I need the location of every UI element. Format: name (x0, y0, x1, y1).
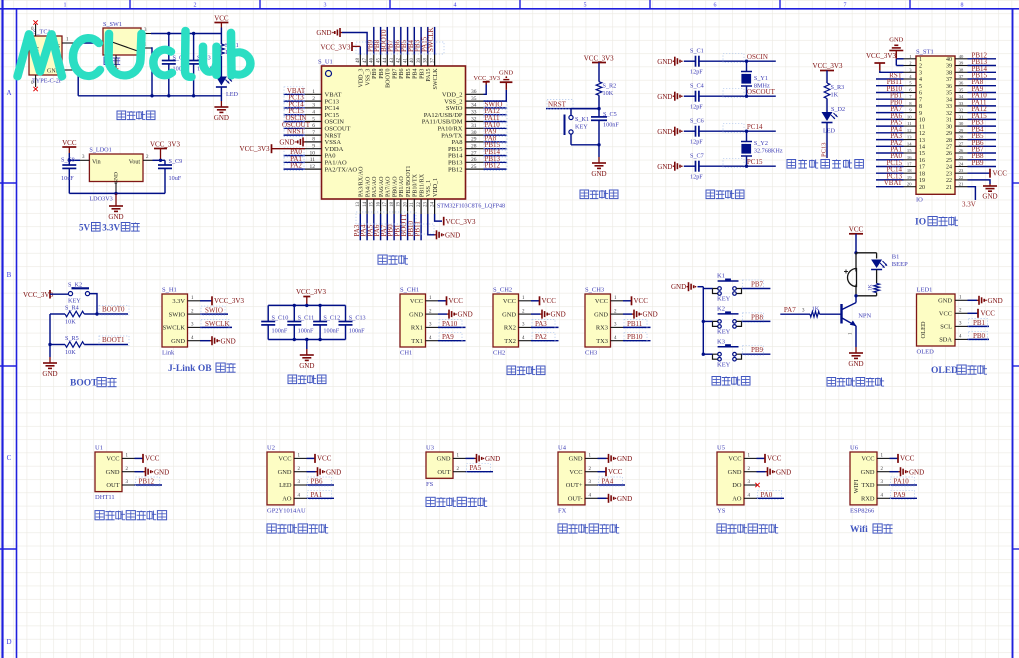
svg-text:Wifi: Wifi (850, 525, 868, 535)
capacitor S_C1 12pF (684, 60, 696, 62)
ground GND of power circuit (220, 101, 222, 107)
svg-text:16: 16 (376, 201, 381, 207)
svg-text:43: 43 (390, 57, 395, 63)
svg-text:CH1: CH1 (400, 350, 412, 357)
svg-text:TX3: TX3 (596, 338, 608, 345)
svg-text:31: 31 (946, 118, 952, 124)
svg-text:VCC: VCC (939, 311, 952, 318)
svg-text:BEEP: BEEP (892, 261, 908, 268)
svg-text:28: 28 (471, 144, 477, 150)
wire VBUS to switch (73, 42, 95, 44)
sheet border left tick (0, 182, 17, 184)
chip pin 45 PB8 (380, 55, 382, 67)
bottom rail of LDO circuit (69, 192, 165, 194)
section title key circuit (712, 377, 721, 386)
svg-text:19: 19 (397, 202, 402, 208)
svg-text:PA2: PA2 (535, 333, 547, 341)
svg-text:TXD: TXD (861, 482, 875, 489)
svg-text:4: 4 (312, 110, 315, 116)
U2 wire to GND (307, 471, 316, 473)
svg-text:30: 30 (959, 121, 964, 126)
svg-text:LDO3V3: LDO3V3 (89, 196, 112, 203)
wire and net label OSCOUT (284, 127, 306, 129)
wire R1 to LED (220, 56, 222, 77)
wire and net label PA12 (484, 114, 507, 116)
ground above header (895, 51, 897, 59)
svg-text:22: 22 (959, 175, 964, 180)
svg-text:38: 38 (424, 58, 429, 64)
U4 pin 2 VCC (585, 471, 598, 473)
svg-text:14: 14 (907, 141, 912, 146)
header pin 3 (904, 71, 917, 73)
module U3 body (426, 452, 453, 478)
svg-text:8MHz: 8MHz (754, 83, 770, 90)
svg-text:GND: GND (551, 311, 566, 319)
U6 pin 1 VCC (877, 457, 890, 459)
wire and rotated net label SWCLK (434, 27, 436, 55)
svg-text:B: B (7, 271, 12, 279)
header pin 38 (955, 71, 968, 73)
svg-text:PA6/AO: PA6/AO (379, 176, 385, 197)
svg-text:22: 22 (417, 201, 422, 207)
section title filter circuit (288, 375, 297, 384)
crystal S_Y2 32.768KHz (745, 130, 748, 133)
section title for U1 (95, 511, 104, 520)
svg-text:DO: DO (732, 482, 742, 489)
svg-text:K2: K2 (717, 306, 725, 313)
svg-text:VCC: VCC (145, 455, 160, 463)
sheet border top ruler line (0, 8, 1019, 10)
section title for U3 (426, 497, 435, 506)
svg-text:37: 37 (430, 57, 435, 63)
wire and rotated net label PA3 (359, 214, 361, 240)
base resistor 1K (780, 313, 810, 315)
chip pin 33 PA12/USB/DP (466, 114, 484, 116)
header pin 25 (955, 159, 968, 161)
svg-text:GP2Y1014AU: GP2Y1014AU (267, 507, 306, 514)
svg-text:TX2: TX2 (504, 338, 516, 345)
svg-text:D: D (6, 638, 11, 646)
svg-text:PA2/TX/AO: PA2/TX/AO (325, 166, 358, 173)
U4 wire to GND (598, 497, 607, 499)
svg-text:PB7: PB7 (751, 280, 764, 288)
svg-text:GND: GND (485, 455, 500, 463)
U3 pin 1 GND (453, 457, 466, 459)
OLED pin 2 VCC (955, 312, 968, 314)
header pin 13 (904, 139, 917, 141)
svg-text:GND: GND (657, 58, 672, 66)
svg-text:VCC: VCC (595, 298, 608, 305)
capacitor S_C7 12pF (684, 165, 696, 167)
header pin 5 (904, 85, 917, 87)
svg-text:VDD_3: VDD_3 (359, 69, 365, 88)
header pin 16 (904, 159, 917, 161)
section title for U4 (558, 524, 567, 533)
svg-text:S_CH3: S_CH3 (585, 287, 604, 294)
svg-text:S_H1: S_H1 (162, 287, 177, 294)
svg-text:A: A (6, 89, 11, 97)
wire rail to ground (49, 345, 51, 358)
wire and net label PB12 (484, 168, 507, 170)
svg-text:U6: U6 (850, 445, 859, 452)
wire R3 to LED (826, 99, 828, 113)
filter top rail (268, 304, 345, 306)
wire and net label PC14 left (876, 172, 904, 174)
U5 unconnected pin (755, 483, 759, 487)
U1 wire and net label PB12 (135, 484, 163, 486)
svg-text:PA3/RX/AO: PA3/RX/AO (359, 166, 365, 197)
svg-text:Vout: Vout (129, 160, 141, 166)
wire and rotated net label PB11 (420, 214, 422, 240)
svg-text:23: 23 (424, 202, 429, 208)
svg-text:VCC: VCC (62, 139, 77, 147)
svg-text:S_C10: S_C10 (272, 315, 289, 322)
U5 wire to VCC (757, 457, 766, 459)
wire and rotated net label PB7 (393, 27, 395, 55)
svg-text:BOOT0: BOOT0 (386, 69, 392, 88)
U2 pin 3 LED (294, 484, 307, 486)
svg-text:Link: Link (162, 350, 175, 357)
svg-text:SWCLK: SWCLK (163, 325, 186, 332)
keys vertical rail (702, 287, 704, 355)
OLED pin 3 SCL (955, 325, 968, 327)
ground GND filter (306, 340, 308, 350)
U5 pin 3 DO (744, 484, 757, 486)
S_CH3 wire and net label PB10 (623, 340, 651, 342)
chip pin 46 PB9 (373, 55, 375, 67)
capacitor S_C10 100nF (267, 305, 269, 321)
svg-text:VCC: VCC (767, 455, 782, 463)
svg-text:SWIO: SWIO (169, 311, 186, 318)
svg-text:18: 18 (919, 171, 925, 177)
svg-text:STM32F103C8T6_LQFP48: STM32F103C8T6_LQFP48 (437, 204, 505, 210)
sheet border top tick (389, 0, 391, 9)
svg-text:GND: GND (657, 93, 672, 101)
header pin 6 (904, 92, 917, 94)
ground below header right (989, 184, 991, 186)
U4 wire to GND (598, 457, 607, 459)
wire and net label PA15 right (968, 118, 997, 120)
svg-text:VCC_3V3: VCC_3V3 (240, 145, 270, 153)
svg-text:VCC_3V3: VCC_3V3 (296, 288, 326, 296)
svg-text:VCC: VCC (993, 170, 1008, 178)
svg-text:SCL: SCL (940, 324, 952, 331)
svg-text:10uF: 10uF (61, 175, 74, 182)
svg-text:21: 21 (959, 182, 964, 187)
OLED pin 1 GND (955, 299, 968, 301)
svg-text:32: 32 (471, 116, 477, 122)
svg-text:PA10: PA10 (442, 320, 458, 328)
section title main chip (378, 255, 387, 264)
header pin 32 (955, 112, 968, 114)
svg-text:S_ST1: S_ST1 (916, 49, 934, 56)
svg-text:1K: 1K (868, 284, 874, 291)
svg-text:GND: GND (214, 114, 229, 122)
capacitor S_C12 100nF (319, 305, 321, 321)
header pin 35 (955, 92, 968, 94)
chip pin 36 VDD_2 (466, 93, 484, 95)
chip pin 9 VDDA (305, 148, 322, 150)
chip pin 7 NRST (305, 134, 322, 136)
U2 pin 4 AO (294, 497, 307, 499)
wire and net label PB7 (742, 288, 771, 290)
svg-text:100nF: 100nF (349, 328, 365, 335)
chip pin 25 PB12 (466, 168, 484, 170)
chip pin 44 BOOT0 (386, 55, 388, 67)
svg-text:28: 28 (959, 135, 964, 140)
svg-text:33: 33 (959, 101, 964, 106)
svg-text:S_C12: S_C12 (323, 315, 340, 322)
chip pin 40 PB4 (413, 55, 415, 67)
S_CH3 pin 3 RX3 (611, 326, 624, 328)
header pin 1 (904, 58, 917, 60)
S_CH1 pin 1 VCC (426, 300, 439, 302)
resistor S_R3 1K (824, 83, 830, 99)
header pin 27 (955, 145, 968, 147)
svg-text:23: 23 (946, 171, 952, 177)
vertical rail boot (49, 314, 51, 345)
U2 wire to VCC (307, 457, 316, 459)
svg-text:18: 18 (907, 168, 912, 173)
svg-text:12: 12 (907, 128, 912, 133)
svg-text:VCC: VCC (214, 15, 229, 23)
header pin 34 (955, 98, 968, 100)
svg-text:GND: GND (279, 139, 294, 147)
svg-text:12pF: 12pF (690, 104, 703, 111)
wire LED to net label PC13 (826, 123, 828, 141)
svg-text:S_C13: S_C13 (349, 315, 366, 322)
svg-text:GND: GND (909, 468, 924, 476)
svg-text:17: 17 (383, 202, 388, 208)
svg-text:KEY: KEY (717, 296, 731, 303)
svg-text:PB7: PB7 (392, 69, 398, 79)
S_CH2 pin 3 RX2 (519, 326, 532, 328)
wire and net label PB5 right (968, 139, 997, 141)
svg-text:PB1/AO: PB1/AO (399, 176, 405, 197)
header pin 28 (955, 139, 968, 141)
svg-text:1K: 1K (831, 92, 839, 99)
U4 wire and net label PA4 (598, 484, 626, 486)
svg-text:GND: GND (42, 370, 57, 378)
power VCC header pin23 (968, 172, 991, 174)
dashed selection cluster bottom of chip (356, 212, 416, 224)
svg-text:OUT+: OUT+ (566, 482, 583, 489)
svg-text:PB11/RX: PB11/RX (419, 173, 425, 197)
svg-text:PB2/BOOT1: PB2/BOOT1 (406, 166, 412, 197)
svg-text:GND: GND (278, 469, 292, 476)
ground GND reset circuit (598, 145, 600, 157)
emitter wire to GND (855, 326, 857, 347)
svg-text:12pF: 12pF (690, 139, 703, 146)
svg-text:VCC_3V3: VCC_3V3 (584, 55, 614, 63)
svg-text:11: 11 (919, 124, 925, 130)
module U6 body (850, 452, 877, 505)
svg-text:100nF: 100nF (323, 328, 339, 335)
chip pin 16 PA6/AO (380, 199, 382, 214)
J-Link pin 4 GND (188, 340, 201, 342)
wire and net label PA0 (284, 155, 306, 157)
svg-text:14: 14 (919, 145, 925, 151)
svg-text:NRST: NRST (548, 101, 567, 109)
svg-text:LED1: LED1 (917, 287, 933, 294)
J-Link pin2 wire SWIO (200, 313, 228, 315)
U6 wire to GND (890, 471, 899, 473)
svg-text:S_R3: S_R3 (831, 84, 845, 91)
sheet border inner frame right (1012, 9, 1014, 658)
module U5 body (717, 452, 744, 505)
U1 pin 1 VCC (122, 457, 135, 459)
svg-text:PB12: PB12 (448, 166, 462, 173)
U2 pin 1 VCC (294, 457, 307, 459)
wire and rotated net label PB1 (400, 214, 402, 240)
svg-text:KEY: KEY (575, 124, 588, 131)
svg-text:VBAT: VBAT (884, 179, 903, 187)
OLED pin3 wire net PB1 (968, 325, 990, 327)
S_CH3 pin 4 TX3 (611, 340, 624, 342)
svg-text:100nF: 100nF (272, 328, 288, 335)
wire and net label PB1 left (876, 98, 904, 100)
wire and net label PB10 left (876, 92, 904, 94)
wire and net label PA5 left (876, 125, 904, 127)
svg-text:PA7/AO: PA7/AO (386, 176, 392, 197)
svg-text:7: 7 (844, 3, 847, 9)
transistor Q1 NPN (855, 296, 857, 303)
wire and rotated net label PB5 (407, 27, 409, 55)
section title serial circuit (507, 366, 516, 375)
chip pin 18 PB0/AO (393, 199, 395, 214)
header pin 8 (904, 105, 917, 107)
header pin 2 (904, 65, 917, 67)
svg-text:VCC: VCC (106, 456, 119, 463)
wire and net label PC14 (284, 107, 306, 109)
S_CH1 pin 4 TX1 (426, 340, 439, 342)
U6 wire to VCC (890, 457, 899, 459)
capacitor S_C3 100uF (193, 34, 195, 61)
svg-text:VCC_3V3: VCC_3V3 (813, 62, 843, 70)
buzzer branch wire (855, 253, 857, 272)
svg-text:RXD: RXD (861, 496, 875, 503)
svg-text:VCC: VCC (900, 455, 915, 463)
wire branches join (856, 295, 877, 297)
pin 3 Vin of LDO (80, 159, 89, 161)
header pins 1-2 join wire (896, 58, 903, 60)
chip pin 21 PB10/TX (413, 199, 415, 214)
chip pin 2 PC13 (305, 100, 322, 102)
svg-text:GND: GND (499, 70, 513, 77)
svg-text:VCC_3V3: VCC_3V3 (446, 218, 476, 226)
svg-text:GND: GND (502, 311, 516, 318)
chip pin 6 OSCOUT (305, 127, 322, 129)
svg-text:VCC: VCC (634, 297, 649, 305)
U2 wire and net label PB6 (307, 484, 335, 486)
crystal S_Y1 8MHz (745, 60, 748, 63)
pin 1 of switch (141, 47, 151, 49)
svg-text:PB4: PB4 (413, 69, 419, 79)
wire VCC to LDO Vin (69, 159, 80, 161)
S_CH2 pin 2 GND (519, 313, 532, 315)
svg-text:16: 16 (919, 158, 925, 164)
U6 pin 4 RXD (877, 497, 890, 499)
S_CH1 pin2 wire to GND (438, 313, 447, 315)
S_CH3 pin2 wire to GND (623, 313, 632, 315)
svg-text:25: 25 (959, 155, 964, 160)
header pin 29 (955, 132, 968, 134)
sheet border top tick (649, 0, 651, 9)
svg-text:32: 32 (959, 108, 964, 113)
svg-text:S_D2: S_D2 (831, 106, 845, 113)
svg-text:S_Y1: S_Y1 (754, 75, 768, 82)
svg-text:1: 1 (919, 57, 922, 63)
sheet border left tick (0, 365, 17, 367)
header pin 39 (955, 65, 968, 67)
svg-text:GND: GND (988, 297, 1003, 305)
chip pin 42 PB6 (400, 55, 402, 67)
svg-text:8: 8 (312, 137, 315, 143)
chip pin 5 OSCIN (305, 121, 322, 123)
S_CH1 pin1 wire to VCC (438, 300, 447, 302)
chip pin 28 PB15 (466, 148, 484, 150)
svg-text:VCC: VCC (317, 455, 332, 463)
svg-text:GND: GND (617, 455, 632, 463)
S_CH1 wire and net label PA10 (438, 326, 466, 328)
svg-text:35: 35 (959, 88, 964, 93)
svg-text:32: 32 (946, 111, 952, 117)
svg-text:40: 40 (946, 57, 952, 63)
wire and rotated net label PB6 (400, 27, 402, 55)
S_CH1 pin 3 RX1 (426, 326, 439, 328)
module U2 body (267, 452, 294, 505)
svg-text:VCC_3V3: VCC_3V3 (321, 44, 351, 52)
header pin 18 (904, 172, 917, 174)
svg-text:VCC_3V3: VCC_3V3 (866, 52, 896, 60)
svg-text:NRST: NRST (287, 128, 306, 136)
svg-text:39: 39 (417, 57, 422, 63)
svg-text:4: 4 (454, 3, 457, 9)
svg-text:VCC: VCC (861, 456, 874, 463)
svg-text:BOOT: BOOT (70, 379, 98, 389)
svg-text:17: 17 (919, 165, 925, 171)
header pin 30 (955, 125, 968, 127)
wire and net label PB7 right (968, 152, 997, 154)
S_CH1 pin 2 GND (426, 313, 439, 315)
svg-text:10K: 10K (65, 319, 76, 326)
svg-text:PB11: PB11 (627, 320, 643, 328)
svg-text:KEY: KEY (68, 298, 81, 305)
svg-text:GND: GND (221, 337, 236, 345)
chip pin 8 VSSA (305, 141, 322, 143)
svg-text:3: 3 (324, 3, 327, 9)
op main chip U1 STM32F103C8T6 body (322, 66, 466, 199)
svg-text:33: 33 (946, 104, 952, 110)
section title alarm circuit (827, 378, 836, 387)
svg-text:PB8: PB8 (379, 68, 385, 78)
U1 pin 3 OUT (122, 484, 135, 486)
svg-text:VCC: VCC (410, 298, 423, 305)
svg-text:5V: 5V (79, 223, 91, 233)
svg-text:5: 5 (312, 116, 315, 122)
wire to net label OSCIN (699, 60, 776, 62)
chip pin 19 PB1/AO (400, 199, 402, 214)
wire and net label PA10 (484, 127, 507, 129)
svg-text:PA10: PA10 (894, 478, 910, 486)
U2 pin 2 GND (294, 471, 307, 473)
wire VSS_2 up to GND (484, 90, 507, 101)
svg-text:PA2: PA2 (290, 162, 302, 170)
svg-text:21: 21 (946, 185, 952, 191)
svg-text:BOOT1: BOOT1 (102, 336, 125, 344)
wire and net label BOOT0 (97, 313, 128, 315)
svg-text:15: 15 (370, 202, 375, 208)
